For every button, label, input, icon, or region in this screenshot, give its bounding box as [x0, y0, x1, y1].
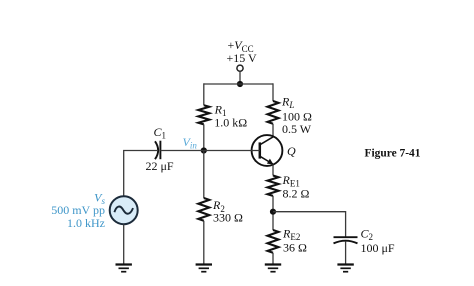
wire: Vin node to R2 — [203, 151, 205, 199]
wire: rail to R1 — [203, 83, 205, 105]
resistor R1 — [198, 105, 209, 124]
wire: C2 to ground — [345, 241, 347, 264]
ground symbol under source — [116, 265, 132, 272]
wire: top rail — [204, 83, 273, 85]
node: emitter junction dot — [270, 209, 276, 215]
wire: R1 to Vin node — [203, 124, 205, 150]
svg-text:8.2 Ω: 8.2 Ω — [283, 186, 310, 200]
resistor RL — [268, 101, 279, 124]
svg-text:Vin: Vin — [183, 135, 198, 150]
svg-text:Q: Q — [287, 144, 296, 158]
transistor Q collector stroke — [260, 137, 274, 145]
wire: emitter to RE1 — [272, 165, 274, 176]
svg-text:330 Ω: 330 Ω — [213, 210, 243, 224]
capacitor C2 — [334, 237, 358, 243]
ground symbol under C2 — [337, 265, 353, 272]
svg-text:0.5 W: 0.5 W — [282, 122, 312, 136]
transistor Q circle — [252, 135, 283, 166]
resistor R2 — [198, 198, 209, 221]
source Vs sine wave — [114, 207, 133, 214]
source Vs circle — [110, 196, 138, 224]
wire: Vin node to base — [204, 150, 260, 152]
VCC terminal circle — [237, 65, 243, 71]
wire: RL to collector — [272, 124, 274, 137]
svg-text:500 mV pp: 500 mV pp — [51, 203, 105, 217]
node Vin dot — [201, 147, 207, 153]
transistor Q emitter stroke with arrow — [260, 156, 274, 164]
transistor Q base bar — [259, 142, 262, 158]
svg-text:100 μF: 100 μF — [361, 241, 395, 255]
wire: RE1 to RE2 — [272, 196, 274, 230]
svg-text:Figure 7-41: Figure 7-41 — [365, 145, 421, 159]
svg-text:22 μF: 22 μF — [146, 159, 174, 173]
ground symbol under R2 — [196, 265, 212, 272]
wire: C1 to Vin node — [160, 150, 203, 152]
resistor RE2 — [268, 230, 279, 253]
node: VCC junction dot — [237, 81, 243, 87]
wire: VCC terminal to rail — [239, 71, 241, 84]
wire: rail to RL — [272, 83, 274, 101]
wire: junction to C2 — [273, 212, 346, 237]
resistor RE1 — [268, 176, 279, 196]
ground symbol under RE2 — [265, 265, 281, 272]
svg-text:1.0 kΩ: 1.0 kΩ — [214, 115, 247, 129]
svg-text:+15 V: +15 V — [227, 51, 258, 65]
capacitor C1 — [155, 141, 160, 160]
wire: RE2 to ground — [272, 253, 274, 265]
svg-text:1.0 kHz: 1.0 kHz — [67, 216, 105, 230]
wire: source to C1 — [124, 151, 157, 197]
wire: R2 to ground — [203, 221, 205, 265]
svg-text:C1: C1 — [154, 125, 167, 141]
svg-text:RL: RL — [281, 95, 294, 111]
svg-text:36 Ω: 36 Ω — [283, 240, 307, 254]
wire: source to ground — [123, 224, 125, 264]
